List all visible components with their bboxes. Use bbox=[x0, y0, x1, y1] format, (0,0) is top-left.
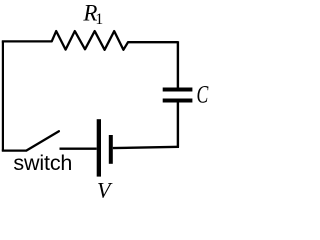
svg-text:C: C bbox=[197, 80, 209, 109]
svg-text:switch: switch bbox=[13, 151, 72, 175]
svg-text:1: 1 bbox=[95, 11, 103, 28]
svg-text:V: V bbox=[97, 177, 113, 200]
